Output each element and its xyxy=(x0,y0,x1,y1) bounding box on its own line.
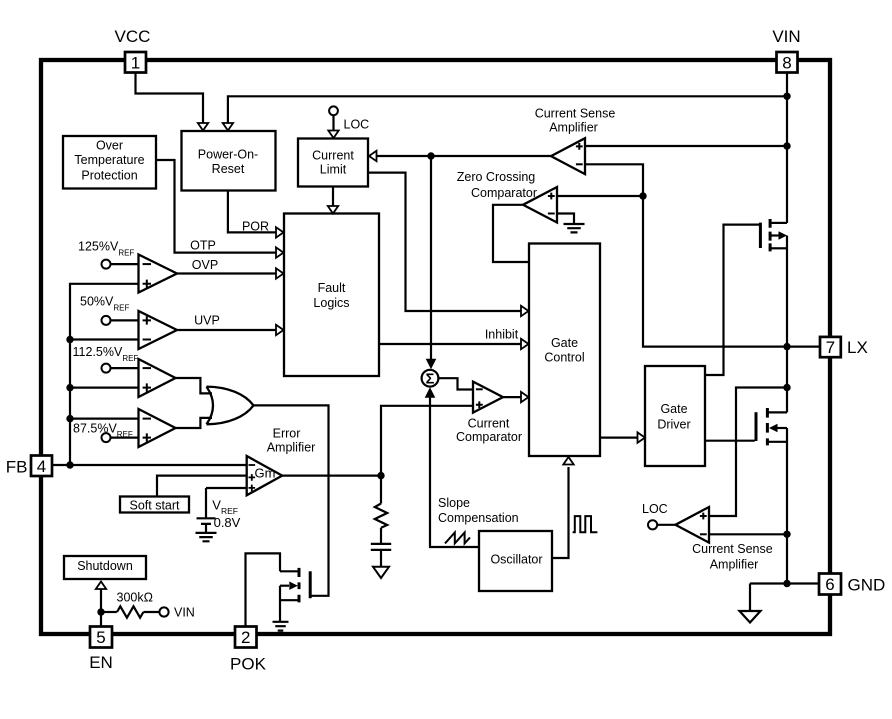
svg-text:POK: POK xyxy=(230,655,267,674)
block Power-On-Reset xyxy=(182,131,276,191)
label VREF xyxy=(212,497,238,516)
svg-text:LX: LX xyxy=(847,338,868,357)
svg-text:Gm: Gm xyxy=(255,466,276,481)
label Inhibit xyxy=(485,328,519,342)
svg-text:Σ: Σ xyxy=(426,371,435,387)
wire ZCC output to Gate Control xyxy=(493,205,529,262)
pin 4 FB xyxy=(31,456,52,477)
terminal 112.5%VREF circle xyxy=(102,364,111,373)
wire POK pin to Q3 drain xyxy=(246,553,281,627)
label 125%VREF xyxy=(78,240,134,258)
wire ZCC plus input xyxy=(557,195,643,197)
pin 2 POK xyxy=(235,627,257,648)
op-amp Error Amplifier Gm xyxy=(247,456,283,495)
svg-text:Over: Over xyxy=(96,139,123,153)
wire OTP from Over Temperature Protection to Fault Logics xyxy=(156,160,284,258)
node junction CSA1 output / summing feed xyxy=(427,152,434,159)
terminal 50%VREF circle xyxy=(102,316,111,325)
wire Q2 drain branch to CSA2 plus xyxy=(709,388,787,517)
terminal 87.5%VREF circle xyxy=(102,433,111,442)
wire VIN rail horizontal from pin8 to Power-On-Reset top input xyxy=(223,96,787,130)
wire 112.5% comparator to OR gate input xyxy=(176,378,213,393)
wire POR Power-On-Reset to Fault Logics xyxy=(228,191,284,238)
block Fault Logics xyxy=(284,214,379,377)
wire OR gate output down to POK MOSFET gate xyxy=(254,405,329,595)
wire UVP comparator to Fault Logics xyxy=(177,325,284,335)
terminal 125%VREF circle xyxy=(102,260,111,269)
battery VREF 0.8V reference xyxy=(197,518,216,532)
svg-text:VIN: VIN xyxy=(174,605,195,619)
label Gm xyxy=(255,466,276,481)
svg-text:GND: GND xyxy=(848,576,886,595)
wire VIN vertical rail from pin8 down to Q1 drain xyxy=(786,72,788,223)
label VCC xyxy=(115,27,151,46)
svg-text:6: 6 xyxy=(825,575,834,594)
label Error Amplifier xyxy=(267,427,316,455)
terminal LOC output circle xyxy=(648,520,657,529)
label VIN xyxy=(772,27,800,46)
wire EN pin to Shutdown xyxy=(96,582,106,628)
wire source rail to GND pin xyxy=(750,534,819,611)
label 87.5%VREF xyxy=(73,421,133,439)
svg-text:Reset: Reset xyxy=(212,162,245,176)
node junction CSA1 minus rail / ZCC plus xyxy=(639,192,646,199)
svg-text:FB: FB xyxy=(6,458,28,477)
or-gate POK fault OR xyxy=(207,387,254,425)
svg-text:Amplifier: Amplifier xyxy=(710,557,759,571)
wire Current Comparator output to Gate Control xyxy=(503,392,529,402)
block Soft start xyxy=(120,497,189,513)
wire resistor to VIN terminal xyxy=(143,611,159,613)
pin 5 EN xyxy=(90,627,112,648)
label Current Sense Amplifier top xyxy=(535,106,616,134)
label 112.5%VREF xyxy=(73,345,139,363)
wire OVP comparator to Fault Logics xyxy=(177,268,284,278)
wire VREF to Error Amplifier plus xyxy=(206,488,247,518)
wire CSA1 plus input from VIN rail xyxy=(585,145,787,147)
wire summing node output to Current Comparator minus xyxy=(438,378,472,389)
svg-text:Shutdown: Shutdown xyxy=(77,559,133,573)
terminal VIN circle xyxy=(159,607,168,616)
label Slope Compensation xyxy=(438,496,519,525)
label LOC xyxy=(344,118,370,132)
ground Q3 source ground xyxy=(273,622,289,631)
svg-text:Current Sense: Current Sense xyxy=(692,542,773,556)
svg-text:Power-On-: Power-On- xyxy=(198,147,258,161)
svg-text:EN: EN xyxy=(89,653,113,672)
ground power ground arrow xyxy=(740,611,761,623)
op-amp Current Comparator xyxy=(473,382,503,413)
svg-text:Gate: Gate xyxy=(551,336,578,350)
terminal LOC input circle xyxy=(329,106,338,115)
wire Gate Driver to Q1 gate xyxy=(705,225,759,375)
svg-text:UVP: UVP xyxy=(194,313,220,327)
wire capacitor to ground arrow xyxy=(380,550,382,567)
IC outer boundary box xyxy=(41,60,830,634)
wire rail to 112.5% comparator plus xyxy=(70,387,139,389)
svg-text:Control: Control xyxy=(544,350,584,364)
svg-text:Inhibit: Inhibit xyxy=(485,328,519,342)
label Current Comparator xyxy=(456,416,522,444)
label UVP xyxy=(194,313,220,327)
wire CSA2 minus input xyxy=(709,533,787,535)
pin 7 LX xyxy=(820,337,841,357)
svg-text:300kΩ: 300kΩ xyxy=(117,591,153,605)
resistor compensation resistor xyxy=(375,504,387,528)
block Gate Driver xyxy=(645,366,705,466)
wire ZCC minus to ground xyxy=(557,214,574,224)
label 300kOhm xyxy=(117,591,153,605)
svg-text:Fault: Fault xyxy=(318,281,346,295)
svg-text:7: 7 xyxy=(826,338,835,357)
svg-text:POR: POR xyxy=(242,219,269,233)
node junction VIN rail / CSA1 plus xyxy=(783,142,790,149)
svg-text:OTP: OTP xyxy=(190,239,216,253)
svg-text:Gate: Gate xyxy=(660,402,687,416)
svg-text:VIN: VIN xyxy=(772,27,800,46)
svg-text:Compensation: Compensation xyxy=(438,511,519,525)
node junction VIN rail / horizontal feed xyxy=(783,93,790,100)
wire Soft start to Error Amplifier plus xyxy=(157,476,247,497)
wire 50%VREF to UVP comparator plus xyxy=(110,319,138,321)
svg-text:Current: Current xyxy=(312,148,354,162)
pin 1 VCC xyxy=(125,52,146,73)
label VIN terminal xyxy=(174,605,195,619)
block Shutdown xyxy=(64,556,146,579)
resistor 300k pull-up xyxy=(117,606,143,617)
block Gate Control xyxy=(529,244,600,457)
ground ZCC signal ground xyxy=(564,224,585,232)
wire CSA1 minus input to LX rail and LX line to pin7 xyxy=(585,164,820,346)
wire rail to UVP comparator minus xyxy=(70,338,139,340)
wire 125%VREF to OVP comparator minus xyxy=(110,263,138,265)
wire compensation from EA output node xyxy=(380,476,382,504)
wire Oscillator slope compensation to summing node xyxy=(425,387,479,547)
label 0.8V xyxy=(214,515,241,530)
label FB xyxy=(6,458,28,477)
block Over Temperature Protection xyxy=(63,136,156,189)
node junction GND net xyxy=(783,580,790,587)
svg-text:Zero Crossing: Zero Crossing xyxy=(457,170,536,184)
comparator OVP 125% xyxy=(139,255,178,293)
op-amp Current Sense Amplifier (low side LOC) xyxy=(675,507,709,543)
summing node sigma circle xyxy=(422,370,439,388)
label POR xyxy=(242,219,269,233)
node junction Q2 drain branch xyxy=(783,384,790,391)
wire LX junction xyxy=(783,343,790,350)
wire resistor to capacitor xyxy=(380,528,382,544)
block Oscillator xyxy=(479,531,552,591)
svg-text:Current: Current xyxy=(468,416,510,430)
svg-text:Slope: Slope xyxy=(438,496,470,510)
label POK xyxy=(230,655,267,674)
label 50%VREF xyxy=(80,295,129,313)
svg-text:LOC: LOC xyxy=(344,118,370,132)
block Current Limit xyxy=(298,139,368,187)
svg-text:Current Sense: Current Sense xyxy=(535,106,616,120)
label EN xyxy=(89,653,113,672)
label LOC bottom xyxy=(642,502,668,516)
svg-text:0.8V: 0.8V xyxy=(214,515,241,530)
comparator 112.5% over-voltage xyxy=(139,359,176,397)
wire Oscillator clock to Gate Control xyxy=(552,457,574,558)
svg-text:Driver: Driver xyxy=(657,418,690,432)
transistor Q3 POK open-drain MOSFET xyxy=(280,568,310,621)
node junction rail / UVP minus xyxy=(66,336,73,343)
label LX xyxy=(847,338,868,357)
wire Current Limit output to Gate Control xyxy=(369,173,529,317)
svg-text:Limit: Limit xyxy=(320,163,347,177)
node junction rail / 87.5% minus xyxy=(66,415,73,422)
wire Inhibit from Fault Logics to Gate Control xyxy=(379,339,529,349)
wire FB rail vertical feeding comparators xyxy=(70,284,139,465)
wire VCC pin1 to Power-On-Reset top input xyxy=(136,72,209,131)
waveform sawtooth slope compensation symbol xyxy=(445,533,470,544)
waveform clock pulse symbol xyxy=(573,516,598,532)
wire Gate Driver to Q2 gate xyxy=(705,440,755,442)
wire Gate Control to Gate Driver xyxy=(600,432,645,442)
node junction rail / 112.5% plus xyxy=(66,384,73,391)
transistor Q2 low-side MOSFET xyxy=(756,388,787,535)
label OTP xyxy=(190,239,216,253)
comparator 87.5% under-voltage xyxy=(139,409,176,447)
svg-text:Temperature: Temperature xyxy=(74,153,144,167)
wire EA output up to Current Comparator plus xyxy=(381,406,473,476)
svg-text:Logics: Logics xyxy=(313,296,349,310)
label Zero Crossing Comparator xyxy=(457,170,537,200)
transistor Q1 high-side MOSFET xyxy=(760,219,787,347)
svg-text:1: 1 xyxy=(131,53,140,72)
wire CSA1 output to Current Limit xyxy=(369,151,551,161)
wire 87.5% comparator to OR gate input xyxy=(176,418,213,428)
wire 87.5%VREF to comparator plus xyxy=(110,437,138,439)
wire Error Amplifier output xyxy=(282,475,381,477)
wire CSA2 output to LOC terminal xyxy=(657,524,675,526)
op-amp Current Sense Amplifier (high side) xyxy=(551,138,585,174)
wire EN node to resistor xyxy=(101,611,117,613)
wire rail to 87.5% comparator minus xyxy=(70,418,139,420)
svg-text:Oscillator: Oscillator xyxy=(490,553,542,567)
svg-text:Comparator: Comparator xyxy=(456,430,522,444)
capacitor compensation capacitor xyxy=(371,544,391,550)
node junction EA output / compensation / comparator xyxy=(377,472,384,479)
pin 6 GND xyxy=(819,574,841,595)
svg-text:Comparator: Comparator xyxy=(471,186,537,200)
svg-text:Soft start: Soft start xyxy=(129,499,180,513)
op-amp Zero Crossing Comparator xyxy=(523,187,557,223)
label Current Sense Amplifier bottom xyxy=(692,542,773,571)
pin 8 VIN xyxy=(777,52,798,73)
wire 112.5%VREF to comparator minus xyxy=(110,367,138,369)
svg-text:5: 5 xyxy=(96,628,105,647)
svg-text:4: 4 xyxy=(37,457,46,476)
node junction EN / resistor xyxy=(97,608,104,615)
svg-text:Amplifier: Amplifier xyxy=(267,441,316,455)
svg-text:2: 2 xyxy=(241,628,250,647)
wire LX rail down to Q2 xyxy=(786,347,788,388)
ground VREF ground xyxy=(196,533,217,541)
wire current signal down to summing node xyxy=(426,156,437,369)
label GND xyxy=(848,576,886,595)
svg-text:OVP: OVP xyxy=(192,258,218,272)
wire FB line from pin4 to Error Amplifier minus xyxy=(52,464,247,466)
wire Current Limit bottom to Fault Logics xyxy=(328,187,338,214)
comparator UVP 50% xyxy=(139,311,178,349)
svg-text:8: 8 xyxy=(782,53,791,72)
wire LOC to Current Limit xyxy=(328,115,338,138)
node junction FB line / comparator rail xyxy=(66,461,73,468)
svg-text:VCC: VCC xyxy=(115,27,151,46)
label OVP xyxy=(192,258,218,272)
ground compensation ground arrow xyxy=(373,567,389,578)
svg-text:Amplifier: Amplifier xyxy=(549,121,598,135)
node junction CSA2 minus / source rail xyxy=(783,531,790,538)
svg-text:Error: Error xyxy=(273,427,301,441)
svg-text:LOC: LOC xyxy=(642,502,668,516)
svg-text:Protection: Protection xyxy=(81,168,137,182)
